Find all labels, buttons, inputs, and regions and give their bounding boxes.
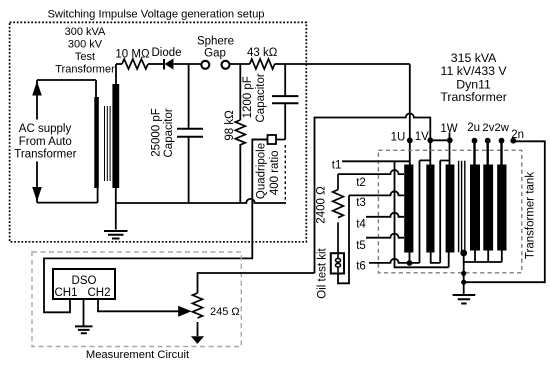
svg-text:t3: t3	[356, 197, 366, 209]
label: AC supply From Auto Transformer	[13, 120, 77, 162]
diode D1	[163, 59, 165, 70]
wire: 2v lead	[487, 141, 489, 165]
wire: tap riser to bar3 bottom	[395, 161, 449, 267]
transformer T1 secondary winding	[112, 84, 119, 188]
svg-text:Capacitor: Capacitor	[163, 108, 175, 157]
svg-text:1V: 1V	[415, 131, 429, 143]
resistor 98 kΩ zigzag	[235, 120, 245, 145]
wire: 2w lead	[500, 141, 502, 165]
svg-text:Transformer tank: Transformer tank	[525, 172, 537, 259]
svg-text:2w: 2w	[494, 122, 509, 134]
svg-text:CH1: CH1	[54, 287, 77, 299]
arrowhead down	[32, 187, 42, 202]
winding 2w bar	[497, 165, 506, 251]
transformer T1 primary winding	[94, 97, 99, 188]
label: 25000 pF Capacitor	[150, 108, 175, 157]
wire: LV neutral riser	[464, 161, 466, 253]
transformer core lines	[459, 161, 462, 253]
svg-text:2400 Ω: 2400 Ω	[315, 186, 327, 224]
wire: pot bottom	[197, 322, 199, 336]
svg-text:1200 pF: 1200 pF	[242, 76, 254, 118]
label: 300 kVA test transformer	[55, 26, 115, 76]
quadripole U1 box	[268, 135, 277, 144]
wire: through oil test kit	[337, 253, 339, 273]
wire: bar2 bottom to 1W	[431, 161, 450, 263]
wire: AC supply top	[37, 80, 96, 97]
svg-text:CH2: CH2	[87, 287, 110, 299]
winding 1U bar	[404, 165, 413, 253]
wire: star point to ground	[463, 253, 465, 295]
wire: DSO ground stub	[83, 299, 85, 326]
wire: quadripole square left	[252, 139, 267, 141]
wire: AC supply bottom	[37, 188, 98, 203]
wire: 1U lead	[409, 64, 411, 165]
svg-text:Capacitor: Capacitor	[255, 73, 267, 122]
svg-text:Gap: Gap	[204, 48, 226, 60]
wire: 2u lead	[473, 141, 475, 165]
node 1V	[427, 137, 433, 143]
capacitor 25000 pF plates	[177, 129, 203, 137]
svg-text:DSO: DSO	[72, 275, 97, 287]
svg-text:From Auto: From Auto	[19, 136, 72, 148]
svg-text:10 MΩ: 10 MΩ	[115, 48, 150, 60]
winding 2v bar	[483, 165, 493, 251]
resistor 98 kΩ branch	[239, 64, 241, 203]
wire: to 1V 1W with hop over 1U lead	[315, 113, 431, 273]
svg-text:400 ratio: 400 ratio	[269, 150, 281, 195]
svg-text:25000 pF: 25000 pF	[150, 108, 162, 157]
wire: tap t1	[342, 160, 410, 162]
dashed box: measurement circuit	[32, 252, 241, 347]
node 2n	[510, 138, 516, 144]
wire: secondary bottom to ground	[115, 188, 117, 230]
dashed box: transformer tank	[378, 150, 521, 272]
wire	[148, 63, 164, 65]
svg-text:t4: t4	[356, 219, 366, 231]
svg-text:2u: 2u	[467, 122, 480, 134]
svg-text:t1: t1	[332, 160, 342, 172]
svg-text:t2: t2	[356, 177, 366, 189]
node 1U	[407, 138, 413, 144]
svg-text:t5: t5	[356, 240, 366, 252]
svg-text:245 Ω: 245 Ω	[210, 306, 240, 318]
sphere gap electrode 1	[201, 61, 209, 69]
capacitor 25000 pF branch wire	[188, 64, 190, 203]
label: 1200 pF Capacitor	[242, 73, 267, 122]
svg-text:43 kΩ: 43 kΩ	[247, 47, 278, 59]
svg-text:t6: t6	[356, 261, 366, 273]
oil test kit box	[331, 253, 344, 273]
wire: bar1 bottom stub	[409, 253, 411, 264]
wire: tap t4 with hop	[366, 213, 404, 217]
svg-text:Transformer: Transformer	[14, 148, 76, 160]
node 2v	[485, 138, 491, 144]
svg-text:11 kV/433 V: 11 kV/433 V	[441, 64, 508, 78]
node 2n junction	[461, 280, 466, 285]
node tank border crossing	[461, 271, 466, 276]
wire: LV star rail	[464, 251, 502, 263]
wire: 1W lead	[449, 140, 451, 164]
wire: top rail left	[116, 63, 122, 65]
arrowhead up	[32, 81, 42, 96]
svg-text:Transformer: Transformer	[440, 90, 507, 104]
wire: 1V lead	[429, 140, 431, 164]
resistor 43 kΩ	[250, 59, 275, 69]
svg-text:Measurement Circuit: Measurement Circuit	[86, 349, 190, 361]
label: Quadripole 400 ratio	[256, 143, 281, 199]
wire: 43k to 1U lead	[275, 63, 410, 65]
wire: pot feed from transformer	[198, 273, 315, 293]
wire: tap t5 with hop	[366, 234, 404, 238]
label: Sphere Gap	[197, 36, 234, 60]
wire: sphere gap to 43k	[230, 63, 250, 65]
quadripole dashed right edge	[284, 145, 286, 203]
wire: 1V to 1W link	[430, 132, 449, 140]
ground: DSO	[75, 326, 93, 333]
svg-text:Oil test kit: Oil test kit	[316, 247, 328, 298]
svg-text:2n: 2n	[511, 129, 524, 141]
svg-text:Diode: Diode	[151, 47, 181, 59]
svg-text:2v: 2v	[482, 122, 494, 134]
DSO box	[53, 269, 115, 299]
wire: 2n down right side	[466, 141, 545, 282]
dashed box: Switching Impulse Voltage generation setup	[10, 22, 307, 241]
node 1W	[447, 137, 453, 143]
sphere gap electrode 2	[222, 61, 230, 69]
node 2u	[472, 138, 478, 144]
potentiometer 245 Ω	[193, 293, 203, 318]
ground: transformer tank	[453, 295, 476, 304]
winding 2u bar	[470, 165, 480, 251]
wire: secondary top stub	[115, 64, 117, 84]
svg-text:Sphere: Sphere	[197, 36, 234, 48]
wire: AC supply arrow shaft	[36, 80, 38, 203]
node 2w	[499, 138, 505, 144]
svg-text:AC supply: AC supply	[19, 123, 72, 135]
capacitor 1200 pF branch wire	[276, 64, 285, 140]
winding 1W bar	[446, 165, 455, 253]
wire: delta link to 1V	[420, 160, 431, 263]
capacitor 1200 pF plates	[272, 96, 298, 103]
wire: diode to sphere gap	[173, 63, 201, 65]
wire: quadripole output down to DSO CH1	[44, 140, 268, 313]
wire: tap t2 with hop	[338, 170, 404, 174]
svg-text:Quadripole: Quadripole	[256, 143, 268, 199]
svg-text:300 kV: 300 kV	[68, 38, 103, 50]
label: 315 kVA transformer	[440, 51, 507, 104]
node bar1 bottom	[407, 260, 413, 266]
resistor 10 MΩ	[122, 59, 148, 69]
wire: tap t3 with hop	[349, 191, 404, 195]
transformer T1 core	[105, 106, 111, 181]
svg-text:1U: 1U	[391, 132, 406, 144]
node star point	[460, 250, 467, 257]
svg-text:315 kVA: 315 kVA	[451, 51, 497, 65]
winding 1V bar	[426, 165, 434, 253]
arrowhead: pot ground arrow	[191, 336, 204, 344]
svg-text:300 kVA: 300 kVA	[65, 26, 106, 38]
svg-text:Transformer: Transformer	[55, 63, 115, 75]
ground: generation setup	[104, 231, 128, 239]
wire: oil test kit to t3	[338, 195, 349, 283]
svg-text:1W: 1W	[440, 123, 457, 135]
wire: ground rail with hop	[116, 199, 286, 203]
svg-text:Switching Impulse Voltage gene: Switching Impulse Voltage generation set…	[47, 8, 264, 20]
wiper arrowhead	[178, 306, 191, 317]
oil test kit terminals	[336, 259, 341, 263]
svg-text:98 kΩ: 98 kΩ	[224, 110, 236, 141]
wire: tap t6 with hop	[369, 259, 420, 263]
resistor 2400 Ω	[333, 174, 344, 253]
wire: CH2 to potentiometer wiper	[98, 299, 178, 311]
svg-text:Test: Test	[75, 51, 95, 63]
